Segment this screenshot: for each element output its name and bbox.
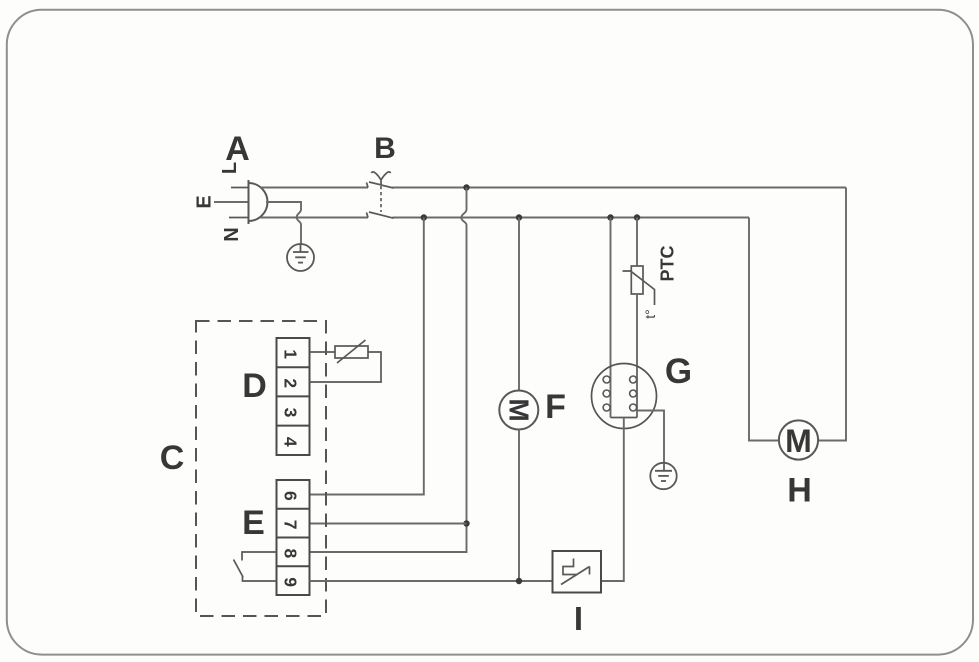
svg-text:2: 2: [281, 378, 301, 388]
svg-text:3: 3: [281, 408, 301, 418]
node F bottom junction: [516, 578, 522, 584]
svg-text:M: M: [785, 423, 812, 459]
bottom wire terminal 9 to box I: [310, 580, 553, 582]
svg-text:G: G: [665, 352, 692, 391]
ground symbol (G earth): [650, 463, 676, 489]
wire to motor F: [518, 218, 520, 391]
wire right branch to H left: [749, 218, 779, 441]
motor H: [779, 420, 818, 459]
defrost switch box I: [553, 551, 602, 593]
svg-text:L: L: [219, 162, 241, 174]
node PTC branch: [634, 214, 640, 220]
wire down with hop to terminals 7/8: [310, 188, 467, 553]
svg-text:E: E: [194, 195, 216, 208]
wire: switch bottom to right: [393, 217, 750, 219]
svg-text:1: 1: [281, 349, 301, 359]
wire N: plug to switch bottom: [260, 217, 368, 219]
wire to terminal 7: [310, 523, 467, 525]
svg-text:C: C: [160, 439, 185, 477]
G left pins: [603, 376, 637, 411]
svg-text:t°: t°: [642, 309, 658, 319]
plug prongs: [214, 188, 249, 218]
wire down to G left pins: [610, 218, 612, 418]
svg-text:9: 9: [281, 577, 301, 587]
node motor F top: [516, 214, 522, 220]
PTC thermistor: [623, 266, 655, 305]
terminal block E: [277, 480, 310, 595]
G bottom connector: [611, 417, 638, 419]
svg-text:B: B: [374, 132, 396, 165]
svg-text:E: E: [242, 504, 265, 542]
wire top right down to H right: [818, 188, 846, 441]
door switch on E8-E9: [234, 552, 277, 581]
wire L top: plug to switch: [261, 187, 368, 189]
dashed enclosure C: [196, 321, 326, 616]
svg-text:D: D: [242, 367, 267, 405]
node G left branch: [607, 214, 613, 220]
svg-text:PTC: PTC: [658, 245, 678, 281]
node after switch (to terminal 6): [421, 214, 427, 220]
wire G center tap down to I: [601, 418, 624, 582]
terminal block D: [277, 338, 310, 455]
svg-text:H: H: [787, 472, 812, 510]
svg-text:7: 7: [281, 520, 301, 530]
svg-text:4: 4: [281, 437, 301, 447]
switch B pole 2: [367, 212, 394, 218]
plug A body: [249, 180, 268, 224]
wire E to ground with hop: [266, 202, 301, 245]
wire motor F down: [518, 430, 520, 582]
wire down to terminal 6: [310, 218, 424, 495]
ground symbol (plug earth): [287, 244, 314, 271]
box I inner contact: [561, 559, 590, 585]
switch B actuator: [371, 172, 390, 186]
wire PTC to G right pins: [636, 294, 638, 418]
motor F: [499, 391, 538, 430]
wire down to PTC: [636, 218, 638, 267]
compressor G: [592, 364, 657, 429]
wire top: switch to right corner: [393, 187, 847, 189]
G right pins: [630, 376, 637, 383]
node on top wire: [463, 184, 469, 190]
switch B link (dashed): [380, 186, 382, 212]
switch B pole 1: [367, 182, 394, 188]
svg-text:F: F: [545, 388, 566, 426]
svg-text:6: 6: [281, 491, 301, 501]
svg-text:8: 8: [281, 549, 301, 559]
defrost sensor resistor on D1-D2: [310, 340, 382, 382]
svg-text:I: I: [574, 600, 583, 637]
svg-text:M: M: [503, 398, 534, 421]
node terminal 7 junction: [463, 520, 469, 526]
wire G to protector ground: [637, 411, 664, 472]
svg-text:N: N: [221, 227, 243, 241]
